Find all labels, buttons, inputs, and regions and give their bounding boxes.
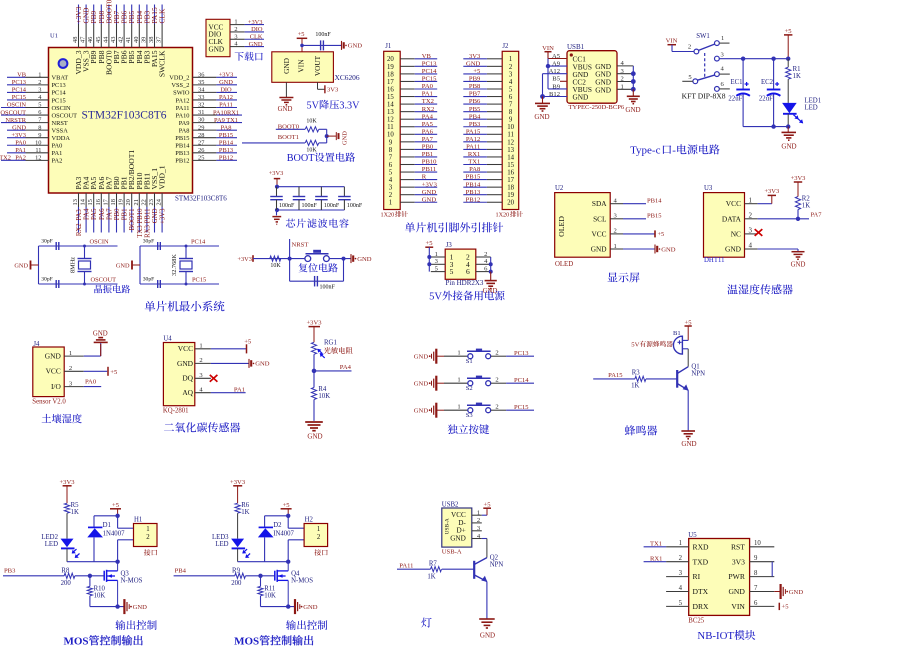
svg-text:6: 6 [466, 267, 470, 276]
svg-text:2: 2 [495, 376, 498, 383]
svg-text:+5: +5 [782, 604, 790, 611]
svg-text:EC1: EC1 [731, 79, 743, 86]
svg-text:15: 15 [387, 94, 394, 101]
svg-text:Q3: Q3 [121, 570, 130, 577]
svg-text:D1: D1 [103, 522, 111, 529]
svg-text:EC2: EC2 [761, 79, 774, 86]
svg-text:1: 1 [614, 243, 617, 250]
svg-text:STM32F103C8T6: STM32F103C8T6 [175, 195, 227, 203]
svg-text:N-MOS: N-MOS [291, 578, 313, 585]
svg-text:14: 14 [507, 154, 514, 161]
svg-text:45: 45 [95, 37, 102, 43]
svg-text:PB5: PB5 [469, 106, 481, 113]
svg-text:PC14: PC14 [514, 377, 529, 384]
svg-text:4: 4 [749, 242, 753, 250]
svg-text:OSCIN: OSCIN [90, 239, 110, 246]
svg-text:17: 17 [102, 198, 109, 205]
svg-text:PC13: PC13 [52, 82, 66, 89]
svg-text:PA12: PA12 [466, 136, 480, 143]
svg-text:9: 9 [754, 555, 758, 562]
svg-text:10: 10 [35, 139, 41, 146]
svg-text:PC13: PC13 [12, 79, 26, 86]
svg-text:PA8: PA8 [221, 124, 232, 131]
svg-text:27: 27 [198, 139, 205, 146]
svg-text:PA6: PA6 [422, 128, 434, 135]
svg-text:100nF: 100nF [302, 203, 318, 209]
svg-text:R3: R3 [632, 370, 641, 377]
svg-text:3: 3 [234, 33, 237, 40]
svg-text:32: 32 [198, 102, 204, 109]
svg-text:RX2: RX2 [422, 106, 434, 113]
svg-text:100nF: 100nF [320, 285, 336, 291]
svg-text:SCL: SCL [593, 214, 607, 223]
svg-text:100nF: 100nF [279, 203, 295, 209]
svg-text:GND: GND [357, 256, 372, 263]
svg-text:24: 24 [156, 198, 163, 205]
svg-text:RX3 PB11: RX3 PB11 [144, 209, 151, 238]
svg-text:DIO: DIO [251, 26, 263, 33]
svg-text:2: 2 [621, 76, 624, 83]
svg-text:BOOT: BOOT [287, 153, 316, 164]
svg-text:GND: GND [625, 106, 640, 114]
svg-text:U4: U4 [163, 336, 172, 343]
svg-text:1K: 1K [427, 573, 435, 580]
svg-text:SWIO: SWIO [173, 90, 190, 97]
svg-text:38: 38 [148, 37, 155, 43]
svg-text:GND: GND [483, 288, 498, 295]
svg-text:12: 12 [507, 139, 514, 146]
svg-text:RX2: RX2 [76, 223, 83, 236]
svg-text:PB4: PB4 [175, 567, 187, 574]
svg-text:200: 200 [61, 580, 72, 587]
svg-text:+3V3: +3V3 [237, 256, 252, 263]
svg-text:GND: GND [414, 354, 429, 361]
svg-text:PA11: PA11 [219, 102, 233, 109]
svg-text:U1: U1 [50, 33, 58, 40]
svg-text:CLK: CLK [250, 33, 263, 40]
svg-text:5: 5 [38, 102, 41, 109]
svg-text:GND: GND [422, 196, 437, 203]
svg-text:+5: +5 [483, 501, 491, 508]
svg-text:16: 16 [507, 169, 514, 176]
svg-text:10K: 10K [94, 592, 106, 599]
svg-text:GND: GND [595, 85, 611, 94]
svg-text:PC14: PC14 [12, 87, 27, 94]
svg-text:NRST: NRST [52, 120, 68, 127]
svg-text:LED1: LED1 [805, 98, 822, 105]
svg-text:14: 14 [80, 198, 87, 205]
svg-text:R: R [422, 174, 427, 181]
svg-text:PA10RX1: PA10RX1 [213, 109, 239, 116]
svg-text:PB15: PB15 [647, 213, 661, 220]
svg-text:TX2: TX2 [0, 155, 11, 162]
svg-text:VIN: VIN [731, 602, 745, 611]
svg-text:19: 19 [387, 64, 394, 71]
svg-text:11: 11 [507, 132, 514, 139]
svg-text:PA12: PA12 [176, 97, 190, 104]
svg-text:STM32F103C8T6: STM32F103C8T6 [82, 110, 167, 122]
svg-text:PA7: PA7 [422, 136, 434, 143]
svg-text:PA0: PA0 [422, 83, 434, 90]
svg-text:+5: +5 [110, 369, 118, 376]
svg-text:PA2: PA2 [52, 158, 63, 165]
svg-text:9: 9 [509, 117, 513, 124]
svg-text:8MHz: 8MHz [70, 257, 77, 273]
svg-text:2: 2 [495, 349, 498, 356]
svg-text:TX3 PB10: TX3 PB10 [137, 208, 144, 238]
svg-text:+5: +5 [473, 68, 481, 75]
svg-text:GND: GND [307, 433, 322, 441]
svg-text:1: 1 [146, 526, 149, 533]
svg-text:+3V3: +3V3 [306, 320, 322, 327]
svg-text:DATA: DATA [722, 214, 742, 223]
svg-text:22uF: 22uF [728, 95, 742, 102]
svg-text:RST: RST [731, 542, 745, 551]
svg-text:1: 1 [749, 196, 753, 204]
svg-text:S1: S1 [466, 358, 473, 365]
svg-text:2: 2 [477, 517, 480, 524]
svg-text:GND: GND [480, 632, 495, 640]
svg-text:100nF: 100nF [347, 203, 363, 209]
svg-text:BOOT1: BOOT1 [129, 209, 136, 231]
svg-text:13: 13 [507, 147, 514, 154]
svg-text:GND: GND [414, 408, 429, 415]
svg-text:PB13: PB13 [219, 147, 233, 154]
svg-text:R9: R9 [232, 568, 241, 575]
svg-text:PC14: PC14 [422, 68, 437, 75]
svg-text:Q4: Q4 [291, 570, 300, 577]
svg-text:2: 2 [199, 357, 202, 364]
svg-text:17: 17 [387, 79, 394, 86]
svg-text:12: 12 [387, 117, 394, 124]
svg-text:PB11: PB11 [422, 166, 436, 173]
svg-text:28: 28 [198, 132, 204, 139]
svg-text:PC13: PC13 [422, 60, 437, 67]
svg-text:3: 3 [389, 185, 393, 192]
svg-text:PA2: PA2 [15, 155, 26, 162]
svg-text:+5: +5 [425, 240, 433, 247]
svg-text:VBAT: VBAT [52, 75, 69, 82]
svg-text:H1: H1 [134, 517, 142, 524]
svg-text:26: 26 [198, 147, 204, 154]
svg-text:GND: GND [282, 58, 291, 74]
svg-text:1: 1 [389, 200, 392, 207]
svg-text:GND: GND [209, 45, 225, 53]
svg-text:B5: B5 [552, 76, 560, 83]
svg-text:TX2: TX2 [422, 98, 434, 105]
svg-text:GND: GND [177, 359, 194, 368]
svg-text:8: 8 [754, 570, 758, 577]
svg-text:GND: GND [348, 43, 363, 50]
svg-text:PB0: PB0 [422, 144, 434, 151]
svg-text:GND: GND [45, 352, 62, 361]
svg-text:100nF: 100nF [315, 32, 331, 38]
svg-text:2: 2 [688, 43, 691, 50]
svg-text:13: 13 [387, 109, 394, 116]
svg-text:39: 39 [140, 37, 147, 43]
svg-text:Pin HDR2X3: Pin HDR2X3 [446, 279, 484, 287]
svg-text:GND: GND [255, 361, 270, 368]
svg-text:47: 47 [80, 36, 87, 43]
svg-text:+3V3: +3V3 [219, 72, 234, 79]
svg-text:J4: J4 [33, 341, 40, 348]
svg-text:VB: VB [17, 72, 26, 79]
svg-text:PA15: PA15 [466, 128, 481, 135]
svg-text:XC6206: XC6206 [335, 73, 360, 82]
svg-text:OLED: OLED [557, 216, 566, 237]
svg-text:1: 1 [317, 526, 320, 533]
svg-text:1K: 1K [802, 203, 810, 210]
svg-text:PB8: PB8 [469, 83, 481, 90]
svg-text:1K: 1K [631, 382, 639, 389]
svg-text:GND: GND [303, 604, 318, 611]
svg-text:3V3: 3V3 [327, 86, 339, 93]
svg-text:3: 3 [38, 87, 41, 94]
svg-text:GND: GND [249, 41, 263, 48]
svg-text:R5: R5 [71, 502, 80, 509]
svg-text:S3: S3 [466, 412, 474, 419]
svg-text:10: 10 [754, 540, 761, 547]
svg-text:PA0: PA0 [85, 379, 97, 386]
svg-text:7: 7 [509, 102, 513, 109]
svg-text:8: 8 [509, 109, 513, 116]
svg-text:18: 18 [387, 71, 394, 78]
svg-text:LED: LED [805, 105, 818, 112]
svg-text:DTX: DTX [693, 587, 709, 596]
svg-text:23: 23 [148, 199, 155, 205]
svg-text:200: 200 [231, 580, 242, 587]
svg-text:9: 9 [38, 132, 41, 139]
svg-text:10K: 10K [264, 592, 276, 599]
svg-text:2: 2 [389, 192, 393, 199]
svg-text:+3V3: +3V3 [248, 19, 263, 26]
svg-text:TX1: TX1 [468, 159, 480, 166]
svg-text:1: 1 [621, 84, 624, 91]
svg-text:+3V3: +3V3 [230, 479, 246, 486]
svg-text:32.768K: 32.768K [171, 254, 178, 276]
svg-text:22: 22 [140, 199, 147, 205]
svg-text:VDD_2: VDD_2 [169, 75, 189, 82]
svg-text:19: 19 [118, 199, 125, 205]
svg-text:GND: GND [466, 60, 481, 67]
svg-text:PC14: PC14 [191, 239, 206, 246]
svg-text:2: 2 [146, 534, 150, 541]
svg-text:N-MOS: N-MOS [121, 578, 143, 585]
svg-text:PB7: PB7 [469, 91, 481, 98]
svg-text:PA11: PA11 [399, 562, 413, 569]
svg-text:5: 5 [679, 600, 683, 607]
svg-text:1: 1 [234, 19, 237, 26]
svg-text:2: 2 [749, 211, 753, 219]
svg-text:PA5: PA5 [91, 208, 98, 220]
svg-text:KQ-2801: KQ-2801 [163, 408, 189, 415]
svg-text:S2: S2 [466, 385, 473, 392]
svg-text:2: 2 [69, 365, 72, 372]
svg-text:R6: R6 [241, 502, 250, 509]
svg-text:GND: GND [414, 381, 429, 388]
svg-text:PB3: PB3 [4, 567, 16, 574]
svg-text:PA1: PA1 [234, 387, 245, 394]
svg-text:29: 29 [198, 124, 204, 131]
svg-text:NC: NC [731, 229, 741, 238]
svg-text:19: 19 [507, 192, 514, 199]
svg-text:U3: U3 [704, 185, 713, 192]
svg-text:44: 44 [102, 36, 109, 43]
svg-text:PB10: PB10 [422, 159, 437, 166]
svg-text:PB4: PB4 [469, 113, 481, 120]
svg-text:MOS: MOS [63, 636, 88, 648]
svg-text:D2: D2 [273, 522, 282, 529]
svg-text:PA4: PA4 [422, 113, 434, 120]
svg-text:6: 6 [389, 162, 393, 169]
svg-text:+3V3: +3V3 [764, 188, 779, 195]
svg-text:DIO: DIO [220, 87, 232, 94]
svg-text:GND: GND [725, 245, 742, 254]
svg-text:PA6: PA6 [99, 208, 106, 220]
svg-text:OSCOUT: OSCOUT [52, 112, 78, 119]
svg-text:+3V3: +3V3 [11, 132, 26, 139]
svg-text:13: 13 [72, 199, 79, 205]
svg-text:+5: +5 [658, 231, 665, 238]
svg-text:VSS_2: VSS_2 [171, 82, 189, 89]
svg-text:OLED: OLED [555, 261, 573, 268]
svg-text:11: 11 [35, 147, 41, 154]
svg-text:PA10: PA10 [176, 112, 190, 119]
svg-text:1X20: 1X20 [381, 212, 395, 219]
svg-text:PA11: PA11 [466, 144, 480, 151]
svg-text:+3V3: +3V3 [422, 181, 438, 188]
svg-text:100nF: 100nF [324, 203, 340, 209]
svg-text:PB12: PB12 [466, 196, 481, 203]
svg-text:30pF: 30pF [41, 277, 53, 283]
svg-text:VB: VB [422, 53, 432, 60]
svg-text:VDDA: VDDA [52, 135, 71, 142]
svg-text:USB-A: USB-A [444, 518, 450, 534]
svg-text:MOS: MOS [234, 636, 259, 648]
svg-text:+3V3: +3V3 [160, 208, 167, 224]
svg-text:RI: RI [693, 572, 701, 581]
svg-text:8: 8 [389, 147, 393, 154]
svg-text:36: 36 [198, 71, 204, 78]
svg-text:21: 21 [133, 199, 140, 205]
svg-text:PC14: PC14 [52, 90, 67, 97]
svg-text:16: 16 [387, 86, 394, 93]
svg-text:SDA: SDA [592, 199, 607, 208]
svg-text:PA5: PA5 [422, 121, 434, 128]
svg-text:1: 1 [477, 510, 480, 517]
svg-text:GND: GND [791, 262, 806, 269]
svg-text:GND: GND [219, 79, 233, 86]
svg-text:1: 1 [457, 376, 460, 383]
svg-text:PB15: PB15 [175, 135, 189, 142]
svg-text:GND: GND [422, 189, 437, 196]
svg-text:GND: GND [342, 131, 349, 145]
svg-text:D-: D- [458, 519, 466, 527]
svg-text:USB1: USB1 [567, 43, 585, 51]
svg-text:PB14: PB14 [466, 181, 481, 188]
svg-text:USB2: USB2 [442, 501, 459, 508]
svg-text:IN4007: IN4007 [273, 531, 294, 538]
svg-text:PA8: PA8 [179, 127, 190, 134]
svg-text:22uF: 22uF [759, 95, 773, 102]
svg-text:+5: +5 [298, 31, 305, 38]
svg-text:1X20: 1X20 [496, 212, 510, 219]
svg-text:18: 18 [110, 199, 117, 205]
svg-text:B1: B1 [673, 330, 681, 337]
svg-text:PA0: PA0 [15, 139, 26, 146]
svg-text:1K: 1K [241, 509, 249, 516]
svg-text:1: 1 [38, 71, 41, 78]
svg-text:30pF: 30pF [41, 239, 53, 245]
svg-text:SWCLK: SWCLK [158, 50, 167, 77]
svg-text:PA4: PA4 [84, 208, 91, 220]
svg-text:31: 31 [198, 109, 204, 116]
svg-text:1N4007: 1N4007 [103, 531, 126, 538]
svg-text:12: 12 [35, 154, 41, 161]
svg-text:15: 15 [87, 199, 94, 205]
svg-text:43: 43 [110, 37, 117, 43]
svg-text:VCC: VCC [726, 199, 741, 208]
svg-text:5: 5 [509, 86, 513, 93]
svg-text:PB1: PB1 [422, 151, 433, 158]
svg-text:1: 1 [199, 343, 202, 350]
svg-text:U2: U2 [555, 185, 564, 192]
svg-text:PB15: PB15 [466, 174, 481, 181]
svg-text:R10: R10 [94, 585, 106, 592]
svg-text:1: 1 [69, 350, 72, 357]
svg-text:GND: GND [278, 106, 293, 113]
svg-text:PC15: PC15 [52, 97, 66, 104]
svg-text:DQ: DQ [182, 374, 193, 383]
svg-text:PC15: PC15 [514, 404, 528, 411]
svg-text:R7: R7 [429, 561, 438, 568]
svg-text:30pF: 30pF [143, 277, 155, 283]
svg-text:2: 2 [484, 251, 487, 258]
svg-text:16: 16 [95, 199, 102, 205]
svg-text:+3V3: +3V3 [269, 170, 284, 177]
svg-text:PA1: PA1 [422, 91, 433, 98]
svg-text:USB-A: USB-A [442, 548, 462, 555]
svg-text:15: 15 [507, 162, 514, 169]
svg-text:I/O: I/O [51, 382, 62, 391]
svg-text:GND: GND [93, 330, 108, 337]
svg-text:3V3: 3V3 [732, 557, 745, 566]
svg-text:NPN: NPN [490, 562, 504, 569]
svg-text:GND: GND [12, 124, 26, 131]
svg-text:VSSA: VSSA [52, 127, 69, 134]
svg-text:GND: GND [789, 589, 804, 596]
svg-text:46: 46 [87, 37, 94, 43]
svg-text:1: 1 [457, 349, 460, 356]
svg-text:+3V3: +3V3 [59, 479, 75, 486]
svg-text:PA9 TX1: PA9 TX1 [214, 117, 238, 124]
svg-text:18: 18 [507, 185, 514, 192]
svg-text:GND: GND [573, 93, 589, 102]
svg-text:GND: GND [534, 113, 549, 121]
svg-text:AQ: AQ [182, 388, 193, 397]
svg-text:LED: LED [215, 541, 228, 548]
svg-text:1: 1 [457, 403, 460, 410]
svg-text:3V3: 3V3 [469, 53, 481, 60]
svg-text:TYPEC-250D-BCP6: TYPEC-250D-BCP6 [569, 104, 625, 111]
svg-text:3: 3 [749, 227, 753, 235]
svg-text:8: 8 [38, 124, 41, 131]
svg-text:NPN: NPN [691, 370, 705, 377]
svg-text:PC15: PC15 [422, 76, 437, 83]
svg-text:BOOT1: BOOT1 [278, 134, 299, 141]
svg-text:PB6: PB6 [469, 98, 481, 105]
svg-text:20: 20 [507, 200, 514, 207]
